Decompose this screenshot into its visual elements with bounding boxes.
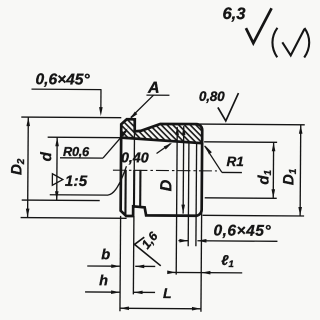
svg-text:R1: R1 [226, 154, 243, 169]
D2 bottom extension [21, 217, 127, 220]
svg-text:6,3: 6,3 [222, 5, 245, 23]
svg-text:1:5: 1:5 [65, 173, 88, 190]
label d1 [255, 169, 274, 184]
d top extension [48, 136, 121, 139]
svg-text:ℓ1: ℓ1 [221, 252, 234, 270]
svg-text:D1: D1 [280, 168, 299, 185]
svg-text:b: b [101, 247, 110, 263]
groove edge extension down [132, 216, 135, 294]
svg-text:0,6×45°: 0,6×45° [35, 71, 90, 88]
svg-text:0,6×45°: 0,6×45° [213, 222, 271, 239]
svg-text:R0,6: R0,6 [63, 144, 90, 159]
label d [38, 151, 55, 161]
svg-text:D2: D2 [8, 158, 27, 175]
right face extension down [200, 210, 203, 312]
d1 extensions [204, 141, 277, 144]
lower half outside view outline [121, 138, 203, 217]
svg-text:L: L [163, 285, 172, 301]
cone start edge (view) [139, 170, 141, 207]
chamfer edge line (view) [124, 170, 126, 216]
svg-text:1,6: 1,6 [139, 228, 161, 251]
groove left edge middle (thin) [133, 131, 135, 169]
d bottom extension [22, 199, 100, 202]
label D1 [280, 168, 299, 185]
centerline axis [113, 169, 217, 172]
upper section (hatched wall of bushing) [121, 119, 202, 143]
svg-text:0,80: 0,80 [199, 89, 225, 104]
D1 extensions [199, 123, 304, 126]
d1 dimension line [272, 142, 274, 198]
d dimension line [56, 137, 58, 200]
extension line flange left (for l1) [176, 127, 177, 274]
groove left edge (view) [133, 170, 135, 206]
D2 dimension line [27, 117, 30, 217]
D dimension line [182, 126, 185, 213]
taper 1:5 label [52, 174, 63, 186]
extension line chamfer end [195, 143, 198, 246]
left face extension down [119, 216, 122, 311]
label D2 [8, 158, 27, 175]
label D [158, 179, 175, 191]
1,6 roughness (rotated) [134, 237, 161, 266]
D1 dimension line [299, 125, 302, 216]
svg-text:0,40: 0,40 [121, 150, 149, 166]
svg-text:A: A [147, 80, 160, 97]
extension line chamfer start (for 0,6x45 bottom) [187, 143, 190, 246]
svg-text:D: D [158, 179, 175, 191]
svg-text:d: d [38, 151, 55, 161]
svg-text:d1: d1 [255, 169, 274, 184]
svg-text:h: h [99, 273, 108, 289]
D2 top extension [21, 116, 121, 119]
